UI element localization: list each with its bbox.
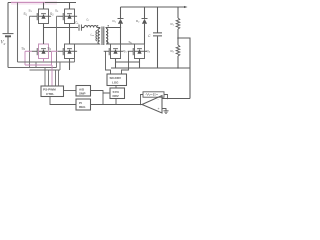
svg-text:DRV: DRV: [113, 94, 119, 98]
wire R1 to R2: [177, 29, 179, 45]
secondary top wire: [106, 27, 121, 30]
SR driver block 1: [107, 74, 127, 86]
tap wire to feedback: [178, 38, 190, 99]
highlight wash over bridge top: [11, 1, 57, 5]
svg-text:REG: REG: [79, 105, 86, 109]
bus link: [35, 62, 37, 68]
transistor SR2: [128, 44, 147, 59]
wire leg A to blocking cap: [44, 27, 79, 29]
controller input stub 3: [51, 65, 53, 86]
wire block A to SR block: [91, 91, 111, 94]
gate wire Q2 (highlighted): [25, 51, 32, 65]
polarity dot primary: [97, 25, 98, 26]
transistor Q3: [58, 9, 77, 24]
gate bus pink: [25, 64, 52, 66]
bridge return rail: [18, 61, 75, 63]
leg B midpoint wire: [69, 24, 71, 45]
Q3 drain stub: [69, 3, 71, 10]
gate wire Q1: [30, 16, 32, 67]
battery Vg: [3, 3, 14, 68]
feedback wire left: [141, 95, 144, 105]
leg A midpoint wire: [43, 24, 45, 45]
controller input stub 1: [44, 68, 46, 87]
block B: [76, 99, 91, 110]
SR2 gate wire: [122, 51, 129, 74]
diode DR2: [144, 7, 146, 19]
node output positive: [184, 6, 188, 8]
gate bus gray 2: [30, 69, 61, 71]
node bottom-right: [177, 67, 178, 68]
transistor Q1: [32, 9, 51, 24]
transistor Q2: [32, 44, 51, 59]
link SR blocks: [115, 86, 117, 89]
node secondary-D1: [120, 27, 121, 28]
SR block 2 bottom stub: [115, 99, 117, 105]
svg-text:+: +: [158, 107, 160, 111]
diode DR1: [120, 7, 122, 19]
SR1 source drop: [115, 59, 117, 69]
output capacitor C branch: [157, 7, 159, 33]
secondary bottom wire: [106, 43, 135, 45]
op-amp U1: [142, 96, 162, 114]
left vertical bus: [17, 3, 19, 63]
resistor R1: [176, 18, 180, 29]
output bottom rail: [111, 67, 190, 69]
node inverting input: [167, 98, 168, 99]
Q2 source drop: [43, 59, 45, 63]
node divider tap: [177, 37, 179, 39]
inverting input wire: [162, 98, 190, 100]
wire R2 to bottom rail: [177, 56, 179, 68]
block A: [76, 86, 91, 97]
wire controller to block A: [64, 90, 77, 92]
feedback wire right: [164, 95, 168, 99]
gate wire Q3: [57, 16, 58, 67]
op-amp output wire: [91, 104, 143, 106]
Q1 drain stub: [43, 3, 45, 10]
bus drop right: [60, 59, 75, 71]
resonant inductor Lr: [84, 26, 97, 28]
resistor R2: [176, 45, 180, 56]
divider branch: [177, 7, 179, 18]
noninverting input wire: [162, 109, 166, 111]
controller input stub 5: [58, 70, 60, 86]
capacitor C plates: [153, 33, 162, 36]
stub junction: [102, 93, 104, 105]
SR2 source drop: [139, 59, 141, 69]
controller box: [41, 86, 64, 97]
SR driver block 2: [110, 88, 125, 99]
controller input stub 2: [48, 70, 50, 86]
transformer secondary winding: [106, 29, 108, 44]
transformer primary winding: [98, 29, 100, 44]
primary bottom return wire: [70, 43, 100, 45]
ground: [163, 111, 168, 114]
blocking capacitor Cb: [79, 25, 81, 31]
wire inductor to transformer: [97, 28, 100, 29]
transistor SR1: [104, 44, 123, 59]
gate bus gray 1: [8, 67, 57, 69]
polarity dot secondary: [108, 25, 109, 26]
transistor Q4: [58, 44, 77, 59]
SR source link wire: [116, 61, 140, 63]
node op-amp output: [140, 104, 141, 105]
wire controller to block B: [50, 97, 76, 105]
feedback network box: [143, 92, 164, 97]
gate wire Q4 (highlighted): [52, 51, 58, 65]
svg-text:SMP: SMP: [79, 91, 86, 95]
svg-text:CTRL: CTRL: [46, 92, 54, 96]
magnetizing inductance Lm: [96, 31, 97, 41]
top rail (pink highlighted section): [11, 2, 45, 4]
Q4 source drop: [69, 59, 71, 71]
svg-text:Vg: Vg: [1, 41, 6, 46]
top rail (dark section): [8, 2, 76, 4]
controller input stub 4: [55, 70, 57, 86]
transformer core: [102, 27, 104, 46]
wire cap to inductor: [81, 27, 84, 29]
SR1 gate wire: [106, 51, 111, 74]
svg-text:LOG: LOG: [112, 80, 119, 84]
rectifier top rail: [121, 6, 187, 8]
